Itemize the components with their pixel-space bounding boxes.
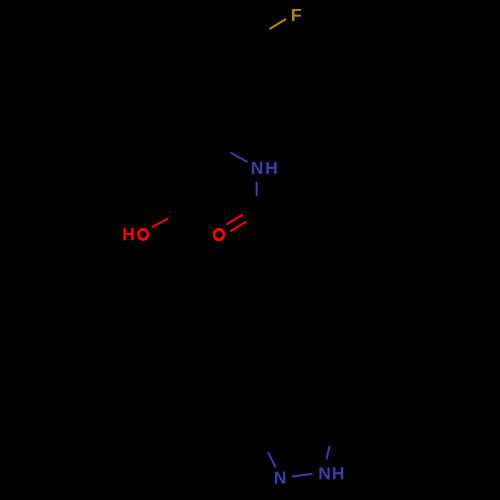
atom O of hydroxyl HO [137, 228, 149, 241]
bond C-N amide (carbon half, black) [214, 143, 231, 153]
bond N-C(=O) (nitrogen half) [256, 182, 258, 196]
atom N of pyrazole NH [319, 467, 329, 479]
bond O-C hydroxymethyl (carbon half, black) [169, 211, 187, 219]
atom O carbonyl [213, 228, 225, 241]
double bond C=O line 2 (carbon half, black) [247, 213, 262, 222]
bond C-N amide (nitrogen half) [231, 153, 248, 163]
bond N-N pyrazole [292, 474, 313, 477]
bond C-NH pyrazole (carbon half, black) [330, 432, 333, 446]
atom H of amide NH [266, 162, 276, 174]
atom H of pyrazole NH [333, 467, 343, 479]
bond C-NH pyrazole (nitrogen half) [327, 446, 330, 460]
double bond C=O line 2 (oxygen half) [230, 221, 247, 231]
bond C-N pyrazole (nitrogen half) [268, 452, 276, 468]
bond N-C(=O) (carbon half, black) [256, 196, 258, 212]
atom H of hydroxyl HO [123, 228, 133, 240]
double bond C=O line 1 (carbon half, black) [243, 206, 257, 215]
atom N of amide NH [252, 162, 262, 174]
bond C-F (carbon half, black) [253, 29, 270, 39]
double bond C=O line 1 (oxygen half) [227, 214, 244, 224]
bond C-F (fluorine half) [270, 19, 287, 29]
atom F [292, 9, 301, 21]
bond C-N pyrazole (carbon half, black) [260, 437, 268, 453]
atom N pyrazole [275, 472, 285, 484]
bond O-C hydroxymethyl (oxygen half) [152, 219, 168, 228]
